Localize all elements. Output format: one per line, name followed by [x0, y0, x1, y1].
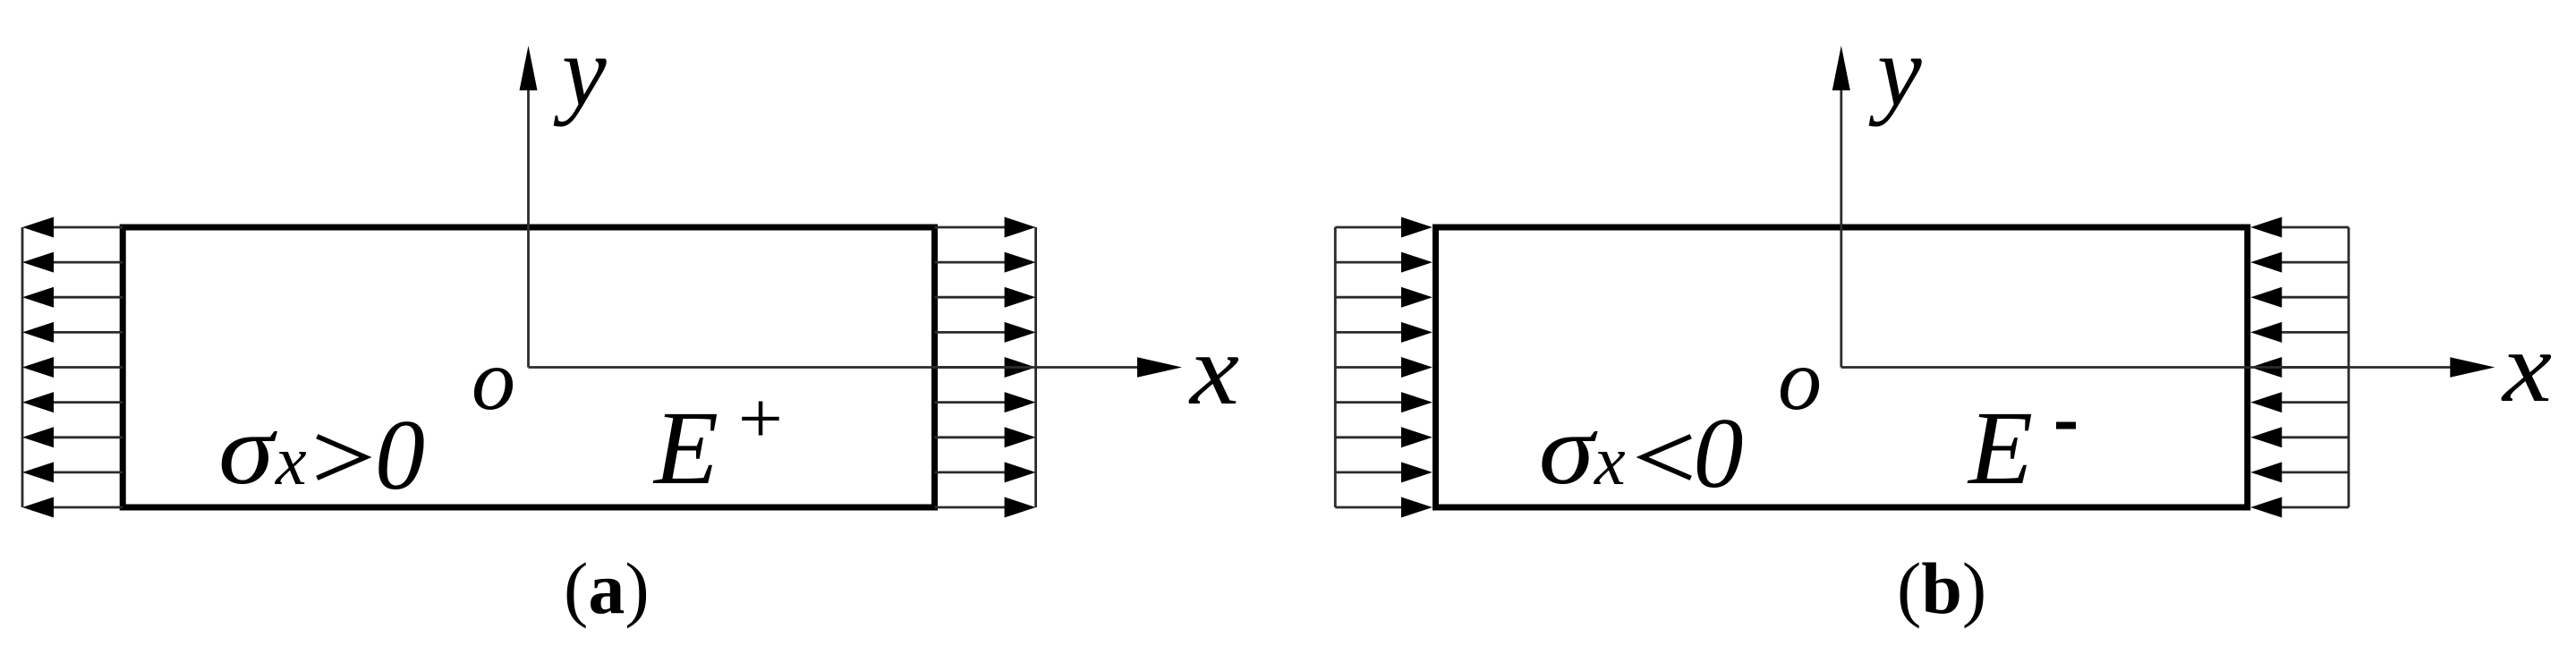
svg-text:x: x	[2501, 312, 2552, 423]
right tension arrow a-R5	[935, 357, 1036, 378]
left tension arrow a-L7	[22, 427, 123, 447]
left load tail line (b)	[1334, 227, 1337, 507]
left tension arrow a-L5	[22, 357, 123, 378]
left load envelope line (a)	[21, 227, 24, 507]
svg-text:E: E	[652, 389, 718, 506]
svg-text:(b): (b)	[1897, 548, 1986, 629]
x axis (a)	[529, 357, 1183, 377]
left tension arrow a-L6	[22, 392, 123, 412]
right tension arrow a-R1	[935, 217, 1036, 238]
right compression arrow b-R6	[2250, 392, 2349, 412]
right tension arrow a-R6	[935, 392, 1036, 412]
right compression arrow b-R4	[2250, 322, 2349, 343]
right load tail line (b)	[2347, 227, 2350, 507]
left compression arrow b-L9	[1335, 497, 1433, 518]
svg-text:σ: σ	[218, 395, 277, 506]
greater-than sign (a)	[317, 437, 365, 479]
svg-text:(a): (a)	[564, 548, 650, 629]
svg-text:0: 0	[375, 400, 425, 511]
left compression arrow b-L1	[1335, 217, 1433, 238]
y axis (a)	[520, 46, 538, 368]
left compression arrow b-L2	[1335, 252, 1433, 273]
right compression arrow b-R7	[2250, 427, 2349, 447]
right compression arrow b-R1	[2250, 217, 2349, 238]
left compression arrow b-L5	[1335, 357, 1433, 378]
left tension arrow a-L8	[22, 462, 123, 482]
left compression arrow b-L3	[1335, 287, 1433, 308]
left tension arrow a-L3	[22, 287, 123, 308]
plate rectangle (b)	[1436, 227, 2248, 507]
svg-text:x: x	[1594, 421, 1626, 499]
superscript minus (b)	[2056, 422, 2076, 429]
svg-text:o: o	[472, 332, 515, 429]
left tension arrow a-L2	[22, 252, 123, 273]
svg-text:o: o	[1778, 332, 1822, 429]
left tension arrow a-L4	[22, 322, 123, 343]
left compression arrow b-L6	[1335, 392, 1433, 412]
superscript plus (a)	[742, 402, 779, 436]
x axis (b)	[1841, 357, 2495, 377]
right tension arrow a-R9	[935, 497, 1036, 518]
right compression arrow b-R5	[2250, 357, 2349, 378]
right compression arrow b-R8	[2250, 462, 2349, 482]
plate rectangle (a)	[123, 227, 934, 507]
y axis (b)	[1832, 46, 1850, 368]
svg-text:x: x	[275, 421, 307, 499]
left tension arrow a-L9	[22, 497, 123, 518]
right tension arrow a-R4	[935, 322, 1036, 343]
right tension arrow a-R7	[935, 427, 1036, 447]
left tension arrow a-L1	[22, 217, 123, 238]
right tension arrow a-R3	[935, 287, 1036, 308]
left compression arrow b-L8	[1335, 462, 1433, 482]
right load envelope line (a)	[1034, 227, 1037, 507]
left compression arrow b-L4	[1335, 322, 1433, 343]
left compression arrow b-L7	[1335, 427, 1433, 447]
svg-text:0: 0	[1694, 398, 1744, 509]
svg-text:x: x	[1188, 315, 1239, 426]
svg-text:E: E	[1967, 389, 2033, 506]
less-than sign (b)	[1643, 437, 1691, 479]
right compression arrow b-R2	[2250, 252, 2349, 273]
right compression arrow b-R9	[2250, 497, 2349, 518]
right tension arrow a-R2	[935, 252, 1036, 273]
right compression arrow b-R3	[2250, 287, 2349, 308]
right tension arrow a-R8	[935, 462, 1036, 482]
svg-text:σ: σ	[1539, 395, 1598, 506]
